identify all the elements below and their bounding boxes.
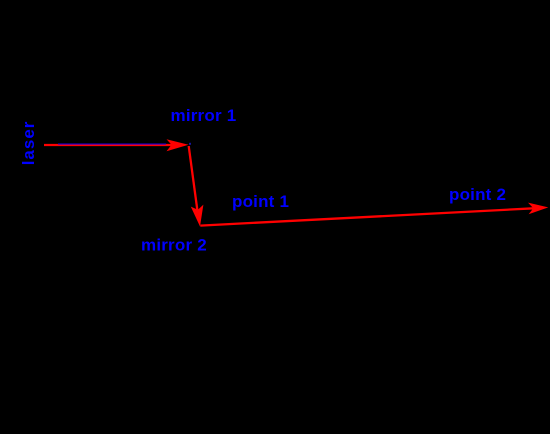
svg-text:point 2: point 2	[449, 185, 506, 204]
node: blue line endpoint at mirror 1	[189, 143, 191, 145]
arrowhead at mirror 2 (pointing down)	[191, 205, 204, 227]
svg-text:point 1: point 1	[232, 192, 289, 211]
svg-text:mirror 1: mirror 1	[171, 106, 237, 125]
svg-text:mirror 2: mirror 2	[141, 236, 207, 255]
wire: blue plot line overlapping beam	[58, 143, 166, 145]
wire: red beam segment mirror 2 to point 2	[200, 208, 536, 225]
svg-text:laser: laser	[19, 121, 38, 166]
arrowhead at point 2 (pointing right)	[528, 203, 548, 215]
wire: red beam segment laser to mirror 1	[44, 144, 172, 146]
arrowhead at mirror 1	[167, 139, 189, 151]
wire: red beam segment mirror 1 to mirror 2	[189, 146, 198, 212]
